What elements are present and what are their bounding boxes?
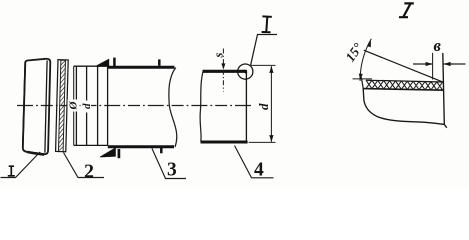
label I (callout) [262,16,272,32]
horizontal extension line (angle leg) [353,78,373,80]
leader line item 4 [235,146,274,178]
white gap on centerline for labels [68,100,92,113]
tack weld tick top right [158,59,161,65]
svg-text:4: 4 [254,160,264,181]
leader line item 2 [64,153,105,178]
pipe 4 break line [200,71,203,142]
item 1 cap inner wall line [45,60,47,152]
wall thickness dimension s [212,49,226,92]
label 15 degrees [342,40,365,65]
item 2 ring gasket [56,60,69,152]
diameter label D at ring [68,100,80,110]
tack weld tick bottom left [118,149,121,158]
leader line item 1 [1,152,41,178]
diameter label d at socket [81,103,93,109]
weld bead bottom [100,148,115,157]
tack weld tick top left [113,58,116,67]
pipe wall section (hatched) in detail [363,80,445,90]
centerline of assembly [17,105,253,107]
label 4 [254,160,264,181]
pipe of item 3 top wall [108,66,175,69]
leader line item 3 [152,149,186,179]
weld bead top (item3/pipe joint) [96,59,109,66]
detail left break edge [361,77,363,89]
chamfer line 15 deg [364,50,443,82]
pipe 3 break line [169,68,177,148]
pipe 4 end face [245,70,247,142]
dimension b (bevel width) [413,36,466,80]
svg-text:3: 3 [167,160,177,181]
pipe 4 top wall [203,70,247,73]
bevel corner inside callout [244,70,247,73]
angle dimension arc 15deg [359,39,372,81]
pipe end face in detail [443,53,445,125]
pipe of item 3 bottom wall [108,145,174,148]
pipe break curve below band [363,89,447,128]
label 2 [84,161,94,183]
svg-text:2: 2 [84,161,94,183]
svg-text:d: d [256,103,271,110]
pipe 4 bottom wall [201,141,248,144]
svg-text:Ø: Ø [68,100,80,110]
detail view title I [399,3,414,17]
svg-text:s: s [212,52,226,58]
label 1 [8,166,15,176]
label 3 [167,160,177,181]
dimension d of pipe 4 [249,65,276,142]
svg-text:в: в [434,36,442,55]
item 3 socket body outline [74,66,108,145]
detail callout circle [238,64,253,79]
tack weld tick bottom right [160,147,163,153]
item 1 elliptical cap outline [23,59,51,155]
leader to label I [251,35,277,66]
svg-text:d: d [81,103,93,109]
